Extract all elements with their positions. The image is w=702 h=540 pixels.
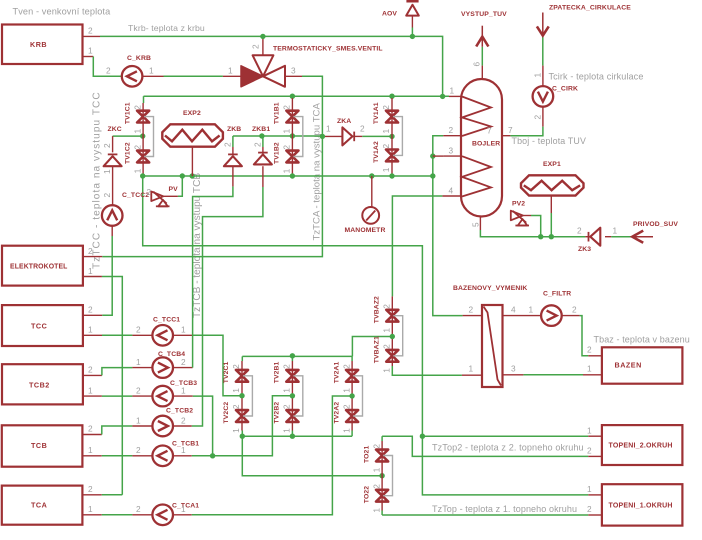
wire ZKC to pump red [112, 166, 114, 206]
svg-text:1: 1 [88, 504, 93, 514]
wire boiler pin3 stub [433, 155, 444, 157]
wire boiler pin3 stub2 [444, 155, 462, 157]
wire EXP1 pin red [550, 196, 552, 213]
wire ZK3 stub right [605, 236, 611, 238]
wire ELEKTROKOTEL pin2 stub [83, 256, 102, 258]
bracket TV1C pair [144, 117, 153, 157]
wire KRB pin1 stub [83, 56, 94, 58]
wire ZKB1 top green [262, 136, 264, 147]
wire TV2A top green [351, 356, 353, 361]
check valve ZK3 [578, 228, 600, 253]
junction rail TV1B2 bottom [290, 173, 295, 178]
svg-text:ZKB: ZKB [227, 126, 241, 133]
svg-text:1: 1 [341, 428, 351, 433]
expansion vessel EXP2 [162, 110, 223, 147]
wire TV1C column red [142, 103, 144, 176]
svg-text:2: 2 [371, 444, 381, 449]
svg-text:7: 7 [487, 126, 492, 136]
svg-text:2: 2 [88, 246, 93, 256]
wire PV out red [163, 195, 178, 197]
svg-text:1: 1 [181, 325, 186, 335]
heat exchanger BAZENOVY_VYMENIK [453, 285, 527, 387]
bracket TV2B pair [293, 376, 302, 416]
wire TV1C column green top [143, 96, 145, 103]
svg-text:3: 3 [449, 146, 454, 156]
svg-text:ZKC: ZKC [108, 126, 122, 133]
svg-text:TV2A1: TV2A1 [333, 361, 340, 383]
svg-text:TV2B1: TV2B1 [274, 361, 281, 383]
wire C_TCA1 out red [173, 514, 192, 516]
svg-text:TV2C1: TV2C1 [223, 361, 230, 383]
svg-text:1: 1 [341, 388, 351, 393]
check valve ZKB1 [252, 126, 272, 164]
manometer MANOMETR [345, 207, 386, 234]
junction rail TV1C2 bottom [140, 173, 145, 178]
valve TV2C2 [223, 402, 248, 433]
wire boiler pin6 stub [481, 66, 483, 79]
wire valve pin3 stub [285, 75, 302, 77]
svg-text:2: 2 [282, 105, 292, 110]
wire EXP2 pin [191, 147, 193, 176]
junction rail PV [180, 173, 185, 178]
junction return TOPENI_2 branch [420, 434, 425, 439]
svg-text:EXP2: EXP2 [183, 110, 201, 117]
wire C_TCB2 to ZKB1 [192, 187, 263, 426]
box TOPENI_1.OKRUH [602, 484, 683, 525]
valve TV2A1 [333, 361, 358, 392]
valve TV2A2 [333, 402, 358, 433]
wire TOPENI_1 pin1 stub [588, 494, 602, 496]
junction rail manometer [369, 173, 374, 178]
svg-text:1: 1 [149, 66, 154, 76]
expansion vessel EXP1 [521, 161, 584, 196]
svg-text:1: 1 [450, 86, 455, 96]
wire rail to boiler pin2 [433, 136, 444, 176]
check valve ZKA [337, 118, 354, 145]
svg-text:2: 2 [88, 424, 93, 434]
svg-text:5: 5 [471, 222, 481, 227]
junction boiler pin1 riser [440, 94, 445, 99]
svg-text:2: 2 [533, 115, 543, 120]
bracket TV2C pair [243, 376, 252, 416]
box BAZEN [602, 347, 683, 383]
wire TzTop net [382, 514, 588, 516]
wire supply manifold TV2 [242, 355, 352, 357]
svg-text:TV1B2: TV1B2 [274, 142, 281, 164]
junction TV2A mid [349, 393, 354, 398]
wire ZKC top red [112, 136, 114, 152]
svg-text:1: 1 [613, 226, 618, 236]
wire BAZEN pin1 to vymenik pin3 [523, 374, 583, 376]
svg-text:2: 2 [382, 344, 392, 349]
wire valve pin1 stub [223, 75, 241, 77]
svg-text:ZK3: ZK3 [578, 246, 591, 253]
wire TO column red [381, 441, 383, 511]
svg-text:1: 1 [381, 129, 391, 134]
pump C_TCC1 [152, 317, 180, 346]
pump C_TCB1 [152, 441, 199, 467]
svg-text:1: 1 [88, 46, 93, 56]
wire TCB pin2 to C_TCB2 [102, 426, 133, 435]
svg-text:Tkrb- teplota z krbu: Tkrb- teplota z krbu [128, 23, 205, 33]
svg-text:TzTop - teplota z 1. topneho o: TzTop - teplota z 1. topneho okruhu [432, 504, 577, 514]
wire vymenik pin4 to C_FILTR [503, 315, 541, 317]
wire C_TCB2 out red [173, 425, 192, 427]
svg-text:TzTCC - teplota na vystupu TCC: TzTCC - teplota na vystupu TCC [92, 91, 103, 269]
junction PV2 drop [538, 234, 543, 239]
svg-text:2: 2 [381, 144, 391, 149]
safety valve PV2 [511, 201, 529, 226]
wire TCB pin1 stub [83, 455, 102, 457]
svg-text:C_TCB1: C_TCB1 [172, 441, 199, 448]
wire ELEKTROKOTEL pin1 bus [102, 277, 122, 495]
wire TCB pin2 stub [83, 434, 102, 436]
box TCC [2, 305, 83, 346]
svg-text:TO21: TO21 [363, 446, 370, 463]
junction TV1A mid [389, 134, 394, 139]
valve TVBAZ1 [374, 336, 399, 373]
svg-text:4: 4 [511, 305, 516, 315]
wire boiler pin1 stub [449, 95, 462, 97]
svg-text:2: 2 [577, 226, 582, 236]
svg-text:2: 2 [282, 364, 292, 369]
svg-text:2: 2 [382, 304, 392, 309]
valve TV1A1 [373, 102, 398, 133]
wire supply rail y96 [144, 95, 450, 97]
vent valve AOV [382, 1, 419, 17]
svg-text:PRIVOD_SUV: PRIVOD_SUV [633, 221, 678, 228]
junction rail boiler link [430, 173, 435, 178]
svg-text:3: 3 [511, 364, 516, 374]
valve TV1B2 [274, 142, 299, 173]
svg-text:2: 2 [88, 484, 93, 494]
svg-text:2: 2 [181, 416, 186, 426]
svg-text:1: 1 [382, 328, 392, 333]
svg-text:2: 2 [102, 143, 112, 148]
wire ZKB1 bottom red [262, 166, 264, 187]
box TCB [2, 425, 83, 466]
svg-text:1: 1 [587, 426, 592, 436]
svg-text:2: 2 [106, 66, 111, 76]
box TOPENI_2.OKRUH [602, 425, 683, 465]
svg-text:2: 2 [132, 105, 142, 110]
junction mix valve pin2 on Tkrb [260, 34, 265, 39]
pump C_CIRK [533, 86, 578, 107]
valve TV1B1 [274, 102, 299, 133]
wire TCB2 pin1 green [102, 395, 132, 397]
svg-text:1: 1 [382, 368, 392, 373]
svg-text:MANOMETR: MANOMETR [345, 227, 386, 234]
wire TCA pin2 green [102, 494, 123, 496]
bracket TV1B pair [293, 117, 302, 157]
wire TCA pin2 stub [83, 494, 102, 496]
wire pump C_TCC2 down red [111, 225, 113, 236]
svg-text:EXP1: EXP1 [543, 161, 561, 168]
wire pump C_KRB out red [143, 75, 164, 77]
wire rail down to vymenik pin2 [433, 176, 463, 316]
wire C_CIRK pin2 red [542, 107, 544, 127]
wire C_TCC1 out red [173, 334, 193, 336]
svg-text:2: 2 [282, 404, 292, 409]
wire TO21 top green [381, 436, 383, 441]
svg-text:TCC: TCC [31, 322, 47, 331]
svg-text:2: 2 [136, 504, 141, 514]
junction TV2B mid [290, 393, 295, 398]
valve TV2B1 [274, 361, 299, 392]
flag VYSTUP_TUV [461, 11, 507, 47]
svg-text:1: 1 [228, 66, 233, 76]
svg-text:1: 1 [181, 386, 186, 396]
svg-text:1: 1 [282, 129, 292, 134]
box TCB2 [2, 364, 83, 404]
wire pump to valve pin1 green [164, 75, 223, 77]
wire C_TCB1 to TV2B mid [192, 396, 293, 456]
svg-text:TV2B2: TV2B2 [274, 402, 281, 424]
pump C_FILTR [541, 291, 571, 326]
wire C_CIRK pin1 red [542, 66, 544, 86]
wire TVBAZ1 bottom green [392, 366, 462, 375]
wire C_TCB2 in red [132, 425, 152, 427]
wire net Tkrb top [100, 36, 443, 96]
pump C_TCA1 [152, 503, 199, 526]
wire TVBAZ mid to manifold [352, 337, 392, 357]
wire boiler pin4 to TVBAZ [392, 196, 442, 296]
junction TV1B1 top [290, 94, 295, 99]
bracket TO pair [383, 456, 392, 496]
wire EXP1 pin green [550, 213, 552, 237]
svg-text:TCB: TCB [31, 441, 47, 450]
svg-text:1: 1 [381, 167, 391, 172]
junction TV2C mid [239, 393, 244, 398]
wire C_TCB1 in red [132, 455, 152, 457]
svg-text:1: 1 [282, 428, 292, 433]
wire VYSTUP green [481, 47, 483, 66]
wire pin5 to ZK3 [480, 230, 585, 237]
junction TV1A1 top [389, 94, 394, 99]
valve TV1C2 [124, 142, 149, 173]
svg-text:TVBAZ1: TVBAZ1 [374, 336, 381, 363]
svg-text:TzTCA - teplota na vystupu TCA: TzTCA - teplota na vystupu TCA [312, 103, 323, 241]
wire ELEKTROKOTEL pin1 stub [83, 276, 102, 278]
svg-text:2: 2 [136, 445, 141, 455]
svg-text:2: 2 [136, 386, 141, 396]
wire AOV stem red [411, 15, 413, 28]
svg-text:ZKB1: ZKB1 [252, 126, 270, 133]
junction rail EXP2 [190, 173, 195, 178]
svg-text:1: 1 [282, 168, 292, 173]
valve TO22 [363, 484, 388, 513]
wire C_TCC1 to TV2C mid [193, 335, 242, 395]
wire mix valve pin2 stem [262, 36, 264, 55]
svg-text:C_TCB2: C_TCB2 [166, 408, 193, 415]
svg-text:2: 2 [572, 305, 577, 315]
wire TCB pin1 green [102, 455, 133, 457]
wire ZK3 to PRIVOD [611, 236, 632, 238]
pump C_TCB2 [152, 408, 193, 437]
svg-text:1: 1 [88, 386, 93, 396]
wire TVBAZ column red [391, 296, 393, 366]
wire KRB pin2 stub [83, 35, 101, 37]
svg-text:2: 2 [88, 305, 93, 315]
svg-text:C_TCC1: C_TCC1 [153, 317, 180, 324]
svg-text:2: 2 [587, 504, 592, 514]
svg-text:2: 2 [147, 187, 152, 197]
check valve ZKC [104, 126, 122, 166]
wire ZK3 stub left [585, 236, 590, 238]
wire C_TCB3 down [193, 396, 213, 456]
svg-text:TV1A1: TV1A1 [373, 102, 380, 124]
wire boiler pin2 stub [443, 135, 461, 137]
svg-text:1: 1 [181, 504, 186, 514]
svg-text:2: 2 [587, 345, 592, 355]
junction C_TCB3 C_TCB1 [210, 453, 215, 458]
svg-text:TV1C1: TV1C1 [124, 102, 131, 124]
wire PV to rail [178, 176, 182, 196]
svg-text:C_TCA1: C_TCA1 [172, 503, 199, 510]
wire PV2 out red [523, 215, 531, 217]
bracket TVBAZ pair [393, 316, 402, 356]
wire TV2C2 bottom to TO mid [242, 436, 382, 476]
boiler BOJLER [461, 79, 502, 217]
svg-text:1: 1 [88, 325, 93, 335]
bracket TV1A pair [393, 117, 402, 156]
svg-text:TzTop2 - teplota z 2. topneho: TzTop2 - teplota z 2. topneho okruhu [432, 443, 584, 453]
wire C_TCB4 to ZKB [193, 186, 233, 367]
wire C_TCB3 in red [132, 395, 152, 397]
svg-text:Tbaz - teplota v bazenu: Tbaz - teplota v bazenu [594, 335, 690, 345]
junction TVBAZ mid [390, 334, 395, 339]
svg-text:KRB: KRB [30, 40, 47, 49]
junction ZKB1 top [259, 133, 264, 138]
svg-text:6: 6 [472, 62, 482, 67]
bracket TV2A pair [353, 376, 362, 416]
wire TCC pin1 stub [83, 334, 102, 336]
junction rail TV1A2 bottom [389, 173, 394, 178]
wire C_TCB3 out red [173, 395, 193, 397]
svg-text:1: 1 [326, 124, 331, 134]
wire TCA pin1 stub [83, 514, 102, 516]
wire TV2 bottoms net [242, 435, 352, 437]
wire TCB2 pin2 stub [83, 374, 102, 376]
wire vymenik pin3 stub [503, 374, 524, 376]
svg-text:2: 2 [469, 305, 474, 315]
junction EXP1 drop [549, 234, 554, 239]
svg-text:2: 2 [132, 145, 142, 150]
svg-text:TV1B1: TV1B1 [274, 102, 281, 124]
svg-text:ZKA: ZKA [337, 118, 351, 125]
wire TV2C bottom green [241, 431, 243, 437]
svg-text:TOPENI_2.OKRUH: TOPENI_2.OKRUH [609, 443, 673, 450]
svg-text:1: 1 [469, 364, 474, 374]
svg-text:2: 2 [223, 142, 233, 147]
svg-text:1: 1 [132, 129, 142, 134]
wire TCB2 pin1 stub [83, 395, 102, 397]
svg-text:TV1A2: TV1A2 [373, 141, 380, 163]
pump C_TCB4 [152, 351, 185, 378]
valve TV2C1 [223, 361, 248, 392]
junction AOV on Tkrb [410, 34, 415, 39]
wire boiler pin7 stub [502, 135, 511, 137]
wire rail to return manifold [143, 176, 589, 495]
wire TV2B bottom green [291, 431, 293, 437]
svg-text:TV2A2: TV2A2 [333, 402, 340, 424]
wire C_FILTR to BAZEN pin2 [580, 316, 589, 356]
wire TCB2 pin2 to C_TCB4 [102, 368, 132, 376]
svg-text:1: 1 [181, 445, 186, 455]
svg-text:2: 2 [88, 26, 93, 36]
svg-text:1: 1 [136, 416, 141, 426]
wire vymenik pin1 stub [462, 374, 482, 376]
wire AOV stem green [411, 28, 413, 37]
junction TO mid [379, 473, 384, 478]
wire valve3 to elektrokotel [102, 76, 322, 256]
three-way valve TERMOSTATICKY_SMES.VENTIL [241, 46, 383, 87]
wire TOPENI_2 pin2 stub [588, 455, 602, 457]
valve TO21 [363, 444, 388, 473]
wire BAZEN pin1 stub [583, 374, 602, 376]
wire C_TCA1 in red [132, 514, 152, 516]
box ELEKTROKOTEL [2, 246, 83, 286]
svg-text:TERMOSTATICKY_SMES.VENTIL: TERMOSTATICKY_SMES.VENTIL [273, 46, 383, 53]
pump C_KRB [122, 55, 151, 87]
svg-text:2: 2 [102, 193, 112, 198]
wire KRB pin1 to pump [93, 57, 121, 77]
svg-text:1: 1 [88, 445, 93, 455]
wire TOPENI_1 pin2 stub [588, 514, 602, 516]
pump C_TCB3 [152, 380, 197, 406]
svg-text:1: 1 [132, 168, 142, 173]
svg-text:1: 1 [282, 388, 292, 393]
junction TV2C2 bottom [240, 434, 245, 439]
svg-text:2: 2 [587, 446, 592, 456]
svg-text:PV2: PV2 [512, 201, 525, 208]
wire ZKA out to TV1A mid [352, 135, 362, 137]
junction ZKA input [320, 134, 325, 139]
wire pump chain green to TCC pin2 [102, 236, 112, 315]
svg-text:2: 2 [371, 484, 381, 489]
svg-text:2: 2 [360, 124, 365, 134]
svg-text:1: 1 [587, 484, 592, 494]
wire boiler pin5 red [479, 216, 481, 230]
svg-text:2: 2 [181, 357, 186, 367]
wire C_CIRK to boiler pin7 [510, 127, 543, 136]
svg-text:TV1C2: TV1C2 [124, 142, 131, 164]
wire TV2A bottom green [351, 431, 353, 437]
wire TCC pin2 stub [83, 314, 102, 316]
wire C_FILTR out red [562, 315, 579, 317]
svg-text:2: 2 [341, 364, 351, 369]
svg-text:C_TCC2: C_TCC2 [122, 192, 149, 199]
svg-text:2: 2 [381, 105, 391, 110]
safety valve PV [151, 186, 178, 206]
svg-text:2: 2 [282, 145, 292, 150]
flag PRIVOD_SUV [632, 221, 678, 243]
svg-text:1: 1 [371, 467, 381, 472]
wire ZKB1 top red [262, 147, 264, 153]
wire manometer pin [371, 176, 373, 207]
svg-text:4: 4 [449, 186, 454, 196]
svg-text:2: 2 [449, 125, 454, 135]
wire vymenik pin2 stub [463, 315, 482, 317]
svg-text:2: 2 [231, 364, 241, 369]
svg-text:BAZENOVY_VYMENIK: BAZENOVY_VYMENIK [453, 285, 527, 292]
wire return to TOPENI_2 pin1 [422, 435, 588, 437]
svg-text:2: 2 [253, 142, 263, 147]
svg-text:C_FILTR: C_FILTR [543, 291, 571, 298]
svg-text:BOJLER: BOJLER [472, 141, 500, 148]
wire C_TCB1 out red [173, 455, 192, 457]
svg-text:C_CIRK: C_CIRK [552, 86, 578, 93]
